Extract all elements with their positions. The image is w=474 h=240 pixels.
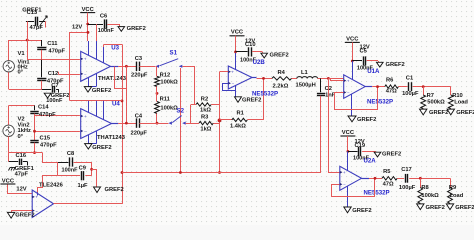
svg-text:GREF2: GREF2 [270,53,289,59]
svg-text:R4: R4 [278,70,286,76]
wire C13 node down [27,40,29,60]
wire C2 to bus [320,96,322,173]
wire U3 sense loop [104,44,123,46]
ground GREF2 (U2B) [235,97,242,103]
svg-text:500kΩ: 500kΩ [427,99,445,105]
svg-text:S1: S1 [170,50,178,57]
ground GREF2 (R7) [420,109,427,115]
svg-text:470pF: 470pF [40,142,57,148]
node R12/R11 [156,92,159,95]
capacitor C5 100nF [352,60,362,62]
capacitor C15 470pF [30,140,38,142]
svg-text:−: − [347,90,350,95]
capacitor C11 470pF [41,40,43,46]
svg-text:Load: Load [450,193,464,199]
svg-text:0°: 0° [18,134,24,140]
wire U2A feedback loop [332,179,375,197]
svg-text:NE5532P: NE5532P [364,189,390,196]
capacitor C1 100uF [408,82,410,91]
svg-text:GREF2: GREF2 [127,26,146,32]
ground GREF1 (C16) [9,168,17,171]
ground GREF2 (C19) [374,152,381,157]
svg-text:L1: L1 [301,70,309,76]
capacitor C13 47pF (variable) [26,21,34,23]
pin U3 to C6 rail [96,24,98,41]
wire R1 to U2B out [263,78,265,120]
wire U4 top loop / VCC feed [70,100,123,102]
wire V2 bottom node [9,152,43,154]
op-amp U2B NE5532P [228,66,252,89]
svg-text:GREF2: GREF2 [92,145,111,151]
wire S2 to R3 [186,123,199,125]
svg-text:GREF2: GREF2 [92,88,111,94]
svg-text:100nF: 100nF [46,98,63,104]
svg-text:1.4kΩ: 1.4kΩ [230,123,246,129]
svg-text:THAT1243: THAT1243 [97,135,126,141]
ground GREF2 (C9) [94,187,101,193]
node U1A out [376,85,379,88]
svg-text:−: − [343,182,346,187]
wire C15 node to C8/C9 [43,153,58,163]
svg-text:12V: 12V [16,187,26,193]
node VCC/C6 [86,23,89,26]
resistor R3 1k [199,121,213,124]
node U3 out / vB [125,65,128,68]
wire chain to U2A [329,79,340,173]
wire junction vertical [219,72,221,173]
resistor R5 47 [382,177,397,180]
svg-text:C6: C6 [100,13,107,19]
svg-text:U2A: U2A [364,157,377,164]
svg-text:C19: C19 [355,143,366,149]
svg-text:47Ω: 47Ω [383,181,394,187]
svg-text:GREF2: GREF2 [382,151,401,157]
svg-text:C13: C13 [27,10,38,16]
source V2 sine [3,125,14,136]
node VCC/C10 [234,51,237,54]
wire U4 -in [35,131,80,133]
svg-text:+: + [84,114,87,119]
svg-text:1µF: 1µF [78,183,89,189]
svg-text:NE5532P: NE5532P [367,99,393,106]
wire U1A +in [331,79,344,81]
wire U3 output [111,66,119,68]
node vA / bus [121,171,124,174]
svg-text:100kΩ: 100kΩ [421,193,439,199]
resistor R2 1k [196,103,211,106]
capacitor C8 100nF [58,162,69,164]
wire R11 bottom [156,114,158,124]
svg-text:GREF2: GREF2 [426,205,445,211]
pin TLE top [37,192,39,195]
wire TLE output [54,203,123,205]
wire S1 to R2 [183,67,195,105]
node U4 out / vB [125,122,128,125]
svg-text:220µF: 220µF [131,72,148,78]
node R7 [422,85,425,88]
svg-text:U1A: U1A [367,68,380,75]
capacitor C14 470pF [34,105,36,110]
resistor R7 500k [423,87,425,95]
capacitor C7 100nF to GREF2 [42,89,51,91]
svg-text:U2B: U2B [253,59,266,66]
capacitor C6 100nF [88,24,103,26]
ground GREF2 (U3) [84,87,91,92]
svg-text:−: − [84,129,87,134]
svg-text:R2: R2 [201,96,208,102]
svg-text:R11: R11 [160,97,171,103]
wire stub near U3 out [115,67,127,89]
svg-text:1kΩ: 1kΩ [200,127,211,133]
svg-text:100nF: 100nF [62,167,79,173]
svg-text:R5: R5 [383,169,391,175]
svg-text:R12: R12 [160,72,171,78]
wire C8/C9 left rail [57,162,59,176]
ground GREF2 (R10) [447,109,454,115]
wire V1 bottom node [9,89,42,91]
svg-text:GREF2: GREF2 [15,212,34,218]
node R1 [262,77,265,80]
svg-text:1500µH: 1500µH [296,82,316,88]
wire V1 top node [9,40,42,42]
wire C12 bottom [41,81,43,90]
svg-text:−: − [232,81,235,86]
wire U4 +in [35,115,80,117]
op-amp U3 THAT1243 [81,51,111,81]
capacitor C9 1uF [81,171,83,180]
svg-text:47Ω: 47Ω [386,89,397,95]
op-amp U2A NE5532P [340,166,362,190]
svg-text:2.2kΩ: 2.2kΩ [273,84,289,90]
resistor R11 100k [155,102,160,114]
svg-text:GREF2: GREF2 [242,97,261,103]
capacitor C10 100nF [236,51,248,53]
resistor R12 100k [156,66,158,76]
svg-text:R8: R8 [421,185,429,191]
svg-text:100kΩ: 100kΩ [160,80,178,86]
svg-text:+: + [232,69,235,74]
svg-text:S2: S2 [177,108,185,115]
node VCC branch [87,31,90,34]
svg-text:R1: R1 [237,111,245,117]
wire R2 left to R3 node [190,105,192,124]
svg-text:Load: Load [454,99,468,105]
svg-text:C8: C8 [67,151,75,157]
node R11 / C4-S2 wire [156,122,159,125]
wire V2 bottom stem [8,136,10,152]
node vA / U4 loop [121,100,124,103]
ground GREF2 (U1A) [348,116,356,122]
resistor R4 2.2k [272,77,292,80]
ground GREF2 (C10) [261,53,268,58]
svg-text:C1: C1 [406,75,414,81]
svg-text:U4: U4 [112,101,120,108]
svg-text:R9: R9 [449,185,456,191]
wire bus (virtual ground) [122,172,321,174]
svg-text:C5: C5 [360,49,368,55]
node U2A out [374,177,377,180]
node bus/S1 branch [179,171,182,174]
svg-text:+: + [347,78,350,83]
svg-text:+: + [84,57,87,62]
svg-text:VCC: VCC [346,37,359,43]
wire U2A output [362,178,370,180]
svg-text:GREF2: GREF2 [352,208,371,214]
svg-text:C12: C12 [48,71,59,77]
svg-text:C15: C15 [40,136,51,142]
node VCC/C19 [347,150,350,153]
svg-text:−: − [84,72,87,77]
ground GREF2 (C6) [118,27,125,32]
svg-text:C4: C4 [135,114,143,120]
wire V1 bottom stem [8,72,10,89]
switch S2 [168,122,172,125]
wire S1 node down to bus [180,68,182,173]
ground GREF2 (U2A) [344,207,351,213]
svg-text:U3: U3 [111,44,119,51]
node VCC/C5 [351,60,354,63]
wire V2 top node [9,105,35,107]
pin U2B VCC [235,53,237,70]
svg-text:0°: 0° [18,70,24,76]
wire U2B output [252,77,257,79]
ground GREF2 (C7) [44,93,51,98]
ground GREF2 (R9) [446,204,453,210]
svg-text:TLE2426: TLE2426 [39,182,64,188]
op-amp U1A NE5532P [344,75,366,99]
svg-text:GREF2: GREF2 [455,205,474,211]
capacitor C12 470pF [41,60,43,77]
ground GREF2 (U4) [85,144,92,149]
ground GREF2 (C5) [377,62,384,67]
wire U1A output [365,86,372,88]
pin U1A gnd [351,94,353,116]
capacitor C17 100uF [405,174,407,183]
svg-text:R10: R10 [452,93,463,99]
svg-text:C14: C14 [38,105,49,111]
svg-text:220µF: 220µF [131,130,148,136]
node bus [218,171,221,174]
pin U3 sense [103,47,105,63]
capacitor C3 220uF [136,62,138,71]
svg-text:−: − [35,208,38,213]
svg-text:1kΩ: 1kΩ [200,107,211,113]
pins U3 bottom [88,78,90,87]
svg-text:C9: C9 [79,166,86,172]
wire vB U3-out to U4-out [126,66,128,123]
wire to TLE2426 NR pin [38,176,58,193]
pin U1A VCC [352,61,354,79]
wire C11 to U3 +in node [41,50,43,60]
svg-text:100µF: 100µF [399,185,416,191]
capacitor C2 1nF [320,78,322,92]
svg-text:47pF: 47pF [15,172,29,178]
wire U1A feedback loop [335,87,378,110]
svg-text:100µF: 100µF [402,91,419,97]
wire +in U3 [27,59,80,61]
resistor R1 1.4k [220,119,232,121]
node -in U4 tap [33,130,36,133]
svg-text:R7: R7 [427,93,434,99]
svg-text:12V: 12V [72,24,82,30]
svg-text:100nF: 100nF [98,28,115,34]
pin U2A VCC [347,151,349,170]
wire -in U3 [58,74,80,76]
wire TLE2426 reference vertical [122,45,124,204]
node R2/R3/R1 [218,119,222,123]
svg-text:GREF2: GREF2 [357,117,376,123]
node L1/C2/U1A [327,77,330,80]
pin U2A gnd [347,186,349,207]
capacitor C19 100nF [348,151,358,153]
svg-text:470pF: 470pF [48,49,65,55]
wire C3 to S1 [139,66,155,68]
resistor R9 Load [450,178,452,187]
svg-text:C17: C17 [401,167,412,173]
svg-text:C10: C10 [245,42,256,48]
svg-text:+: + [343,170,346,175]
node C8/C9 rail [90,168,93,171]
op-amp U4 THAT1243 [81,109,112,139]
pin U3 VCC [88,41,90,55]
pin U2B gnd [235,85,237,96]
svg-text:GREF2: GREF2 [105,187,124,193]
ground GREF2 (R8) [417,204,424,210]
node R8 [419,177,422,180]
svg-text:C3: C3 [135,56,142,62]
svg-text:VCC: VCC [342,130,355,136]
svg-text:C11: C11 [47,41,58,47]
svg-text:47pF: 47pF [30,25,44,31]
svg-text:R3: R3 [201,115,208,121]
pins U4 bottom [88,135,90,144]
resistor R8 100k [420,178,422,187]
node C15 / V2- [33,151,36,154]
node V1+ / C13 junction [26,39,29,42]
svg-text:VCC: VCC [231,29,244,35]
svg-text:GREF2: GREF2 [456,110,474,116]
wire C8/C9 right rail [91,162,93,176]
svg-text:C16: C16 [16,153,27,159]
capacitor C16 47pF to GREF1 [9,161,18,163]
svg-text:V1: V1 [18,51,26,57]
capacitor C4 220uF [112,123,119,125]
wire VCC branch to U4 [70,33,89,101]
svg-text:GREF2: GREF2 [429,110,448,116]
pins U4 top [88,101,90,113]
svg-text:NE5532P: NE5532P [252,90,278,97]
wire U2B -in to gnd pin [223,84,236,91]
wire U2B +in [220,71,229,73]
svg-text:R6: R6 [386,78,393,84]
svg-text:470pF: 470pF [39,112,56,118]
switch S1 [156,65,160,68]
ground GREF2 (TLE input) [11,210,32,212]
source V1 sine [3,61,14,72]
resistor R6 47 [385,85,399,88]
svg-text:GREF2: GREF2 [386,62,405,68]
resistor R10 Load [450,87,452,95]
inductor L1 1500uH [297,77,318,79]
